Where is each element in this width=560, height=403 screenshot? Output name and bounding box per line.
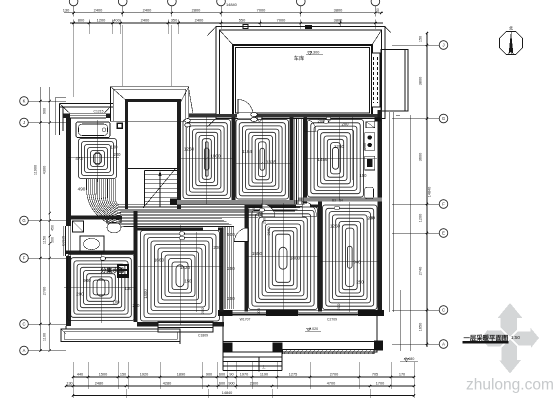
right dimension ticks (426, 32, 428, 34)
svg-text:90: 90 (229, 372, 233, 376)
svg-text:C0905: C0905 (62, 236, 66, 246)
stair landing line (128, 168, 177, 170)
svg-text:2150: 2150 (266, 226, 271, 236)
leader lines room U2 (261, 117, 263, 204)
leader lines lower-left room (100, 252, 102, 323)
svg-text:200: 200 (114, 152, 122, 157)
living room L1 bottom wall (137, 322, 224, 327)
svg-text:170: 170 (399, 372, 405, 376)
svg-text:900: 900 (228, 381, 234, 385)
svg-text:C1809: C1809 (198, 334, 208, 338)
leader lines bathroom (97, 120, 99, 182)
stairwell top wall (125, 99, 181, 102)
svg-text:600: 600 (219, 372, 225, 376)
stairwell left wall (125, 102, 128, 209)
svg-text:130: 130 (66, 381, 72, 385)
svg-text:7000: 7000 (277, 18, 286, 23)
svg-text:250: 250 (263, 218, 267, 224)
top dimension ticks row 2 (72, 22, 74, 24)
garage roof hip diagonals (207, 27, 216, 37)
svg-text:200: 200 (318, 119, 326, 124)
svg-text:G: G (442, 116, 445, 121)
svg-text:800: 800 (78, 18, 85, 23)
garage inner door swing bottom-left (238, 113, 253, 119)
svg-text:2300: 2300 (250, 381, 258, 385)
svg-text:440: 440 (77, 372, 83, 376)
left bay roof hip diagonals (60, 104, 71, 114)
left exterior wall (66, 115, 71, 326)
svg-text:1150: 1150 (43, 236, 47, 244)
svg-text:C: C (442, 308, 445, 313)
svg-text:900: 900 (206, 372, 212, 376)
bathroom bay window wall (63, 114, 110, 119)
svg-text:4280: 4280 (163, 381, 171, 385)
svg-text:1400: 1400 (143, 289, 148, 299)
svg-text:150: 150 (252, 206, 256, 212)
garage eave outer rectangle (216, 27, 385, 119)
svg-text:130: 130 (63, 8, 70, 13)
svg-text:1335: 1335 (266, 160, 277, 165)
svg-text:2400: 2400 (195, 18, 204, 23)
left dimension line inner (39, 87, 41, 351)
pipe fan from bathroom to corridor (87, 179, 235, 227)
svg-text:1890: 1890 (177, 372, 185, 376)
svg-text:上: 上 (262, 364, 266, 369)
left dimension line outer (49, 87, 51, 351)
valve black square near stairs (170, 199, 177, 206)
svg-text:1650: 1650 (419, 323, 423, 331)
wc lower wall (66, 251, 137, 255)
north compass (500, 32, 523, 55)
svg-text:940: 940 (353, 260, 361, 265)
interior wall right of wc (134, 211, 138, 322)
svg-text:1970: 1970 (240, 372, 248, 376)
toilet (107, 222, 121, 233)
coil room U1 (183, 120, 231, 199)
svg-text:450: 450 (51, 225, 55, 231)
corridor top wall gray band (176, 200, 298, 204)
terrace column left (223, 343, 233, 353)
svg-text:1420: 1420 (180, 265, 191, 270)
door swing corridor to U2 (262, 204, 275, 217)
svg-text:2400: 2400 (94, 8, 103, 13)
riser circles room U1 top (185, 119, 191, 123)
svg-text:3800: 3800 (419, 77, 423, 85)
wall L2 left (245, 205, 249, 312)
svg-text:G: G (22, 218, 25, 223)
svg-text:200: 200 (200, 307, 205, 314)
service unit stove (365, 133, 375, 150)
upper rooms wall U3 left (304, 118, 308, 204)
coil room WC lower-left (68, 255, 135, 321)
top dimension line row 2 (70, 22, 383, 24)
right grid bubbles (439, 41, 448, 50)
lower wall black piers (218, 310, 233, 316)
leader lines room L2 (282, 203, 284, 312)
svg-text:150: 150 (419, 36, 423, 42)
riser circles room L3 top (334, 206, 339, 210)
svg-text:J: J (23, 120, 25, 125)
terrace outline (223, 315, 377, 353)
corridor vertical pipe chase (222, 226, 224, 309)
top dimension right end 150 (380, 12, 382, 14)
upper floor top wall band (189, 114, 382, 118)
bottom dimension ticks row 3 (72, 394, 74, 396)
top grid bubbles (69, 0, 78, 6)
left eave corner lines top-left (55, 97, 66, 99)
bathroom door marker (117, 123, 124, 130)
svg-text:500: 500 (227, 232, 235, 237)
stair tower hip diagonals (111, 87, 129, 103)
svg-text:7000: 7000 (257, 8, 266, 13)
upper rooms wall U2 right (290, 118, 294, 204)
bottom dimension line row 3 (73, 395, 414, 397)
stairwell right wall (177, 102, 181, 209)
svg-text:1700: 1700 (376, 381, 384, 385)
svg-text:F: F (23, 256, 26, 261)
svg-text:500: 500 (51, 237, 55, 243)
bay window C1809 (158, 322, 213, 328)
driveway pad right of garage (381, 50, 408, 112)
top dimension ticks row 1 (72, 12, 74, 14)
bottom dimension line row 2 (66, 385, 414, 387)
svg-text:600: 600 (219, 381, 225, 385)
chimney mark left on garage eave (243, 25, 248, 29)
svg-text:W1707: W1707 (240, 318, 251, 322)
svg-text:B4: B4 (339, 199, 343, 203)
right outer boundary line (400, 290, 402, 351)
watermark logo (481, 303, 539, 374)
shower tray (73, 221, 84, 232)
svg-text:B3: B3 (332, 199, 336, 203)
svg-text:11900: 11900 (34, 165, 38, 175)
svg-text:E: E (442, 231, 445, 236)
svg-text:A: A (442, 342, 445, 347)
svg-text:K: K (23, 99, 26, 104)
svg-text:150: 150 (120, 372, 126, 376)
svg-text:1190: 1190 (260, 372, 268, 376)
bottom dimension ticks row 2 (65, 385, 67, 387)
terrace steps (223, 356, 282, 358)
coil room L3 (323, 205, 378, 310)
riser circles room L2 top (259, 208, 264, 212)
wall L2/L3 divider (318, 202, 322, 312)
svg-text:3800: 3800 (334, 8, 343, 13)
riser circles room U3 top (323, 120, 328, 124)
svg-text:200: 200 (76, 292, 84, 297)
svg-text:3600: 3600 (419, 153, 423, 161)
svg-text:1184: 1184 (242, 149, 252, 154)
svg-text:350: 350 (171, 18, 178, 23)
leader lines room U1 (206, 117, 208, 204)
svg-text:4300: 4300 (43, 166, 47, 174)
right dimension line (426, 33, 428, 347)
lower rooms bottom wall (218, 311, 384, 316)
L1 top wall (137, 228, 224, 231)
svg-text:1:50: 1:50 (511, 335, 520, 340)
svg-text:14840: 14840 (222, 391, 233, 395)
chimney mark right on garage eave (305, 25, 312, 29)
svg-text:C1215: C1215 (94, 110, 104, 114)
black pier right wall top (375, 117, 381, 121)
svg-text:1800: 1800 (290, 256, 301, 261)
stair up arrow (159, 174, 161, 207)
svg-text:490: 490 (78, 187, 86, 192)
L2 top wall (245, 205, 320, 208)
eave line between tower and garage (189, 112, 216, 114)
svg-text:1100: 1100 (43, 333, 47, 341)
bottom dimension ticks row 1 (72, 376, 74, 378)
door swing L3 top (302, 202, 317, 217)
svg-text:1250: 1250 (184, 147, 195, 152)
svg-text:1920: 1920 (140, 372, 148, 376)
right grid bubble leaders (392, 44, 439, 46)
bottom dimension witness lines (72, 362, 74, 389)
upper rooms wall U1 right (232, 118, 236, 204)
svg-text:705: 705 (372, 372, 378, 376)
coil room U2 (236, 120, 289, 200)
terrace slab bottom-left (61, 329, 180, 342)
svg-text:200: 200 (336, 303, 341, 310)
stair tower eave outer (111, 87, 189, 122)
stair tower eave inner line (114, 88, 186, 90)
svg-text:车库: 车库 (294, 54, 304, 62)
upper right rooms bottom wall (298, 197, 382, 201)
riser circles room U2 top (251, 112, 257, 116)
leader lines living room L1 (179, 225, 181, 325)
wall between L1 and corridor chase (220, 228, 224, 312)
door swing U3 hall (304, 119, 316, 131)
terrace column middle (273, 343, 283, 353)
svg-text:900: 900 (43, 108, 47, 114)
window W1707 in lower wall (233, 310, 267, 316)
svg-text:A: A (23, 348, 26, 353)
right facade inner line (389, 112, 391, 312)
leader lines room L3 (349, 202, 351, 312)
svg-text:200: 200 (368, 216, 376, 221)
terrace step arrow (258, 357, 260, 372)
svg-text:150: 150 (360, 173, 368, 178)
coil room U3 (308, 120, 364, 198)
bathtub (76, 122, 110, 138)
svg-text:130: 130 (125, 286, 133, 291)
window C0905 outer sill (62, 226, 64, 256)
svg-text:1660: 1660 (154, 258, 165, 263)
svg-text:250: 250 (133, 303, 141, 308)
service unit sink (365, 156, 375, 170)
stair break diagonal (143, 168, 176, 208)
svg-text:3800: 3800 (334, 18, 343, 23)
svg-text:2480: 2480 (95, 381, 103, 385)
svg-text:400: 400 (113, 18, 120, 23)
svg-text:14840: 14840 (226, 2, 238, 7)
svg-text:1500: 1500 (99, 372, 107, 376)
window C2709 in lower wall (299, 310, 358, 316)
window C0905 in left wall (65, 226, 72, 256)
coil bathroom (79, 139, 117, 179)
svg-text:C2709: C2709 (327, 318, 337, 322)
svg-text:900: 900 (83, 278, 91, 283)
svg-text:1250: 1250 (334, 144, 345, 149)
washbasin counter (80, 236, 104, 252)
garage eave inner rectangle (220, 30, 382, 115)
svg-text:200: 200 (342, 122, 350, 127)
right exterior wall upper (378, 110, 383, 314)
svg-text:1200: 1200 (97, 18, 106, 23)
bathroom lower wall (66, 216, 122, 220)
svg-text:250: 250 (227, 266, 235, 271)
svg-text:200: 200 (256, 307, 261, 314)
hallway pipes between U2 and U3 (293, 119, 295, 204)
svg-text:2400: 2400 (143, 8, 152, 13)
garage door opening right (371, 53, 381, 107)
top dimension line row 1 (64, 12, 383, 14)
manifold block (117, 264, 129, 278)
svg-text:14840: 14840 (428, 187, 432, 198)
svg-text:150: 150 (185, 279, 193, 284)
svg-text:1550: 1550 (252, 251, 263, 256)
terrace column right (374, 341, 383, 351)
riser circles lower-left room (100, 257, 105, 261)
left bay window roof (60, 103, 114, 105)
top dimension witness lines (73, 25, 75, 97)
svg-text:150: 150 (376, 8, 380, 14)
svg-text:J: J (442, 43, 444, 48)
svg-text:1200: 1200 (363, 143, 367, 151)
left dimension ticks (39, 100, 41, 102)
svg-text:2400: 2400 (141, 18, 150, 23)
svg-text:一层采暖平面图: 一层采暖平面图 (464, 333, 509, 342)
svg-text:-2.480: -2.480 (404, 357, 415, 361)
svg-text:550: 550 (239, 18, 246, 23)
svg-text:F: F (442, 202, 445, 207)
riser circles living room top (179, 232, 184, 236)
svg-text:250: 250 (227, 296, 235, 301)
risers on garage bottom wall (257, 117, 261, 121)
svg-text:1250: 1250 (330, 224, 341, 229)
svg-text:1200: 1200 (419, 214, 423, 222)
bottom dimension line row 1 (73, 376, 414, 378)
svg-text:100: 100 (113, 300, 121, 305)
left grid bubbles (20, 97, 29, 106)
svg-text:zhulong.com: zhulong.com (466, 377, 554, 394)
terrace hatched edge strip (283, 350, 375, 354)
svg-text:450: 450 (258, 212, 262, 218)
svg-text:200: 200 (213, 245, 221, 250)
garage walls (233, 45, 372, 116)
svg-text:1456: 1456 (317, 157, 328, 162)
svg-text:4700: 4700 (327, 381, 335, 385)
stair treads (145, 170, 178, 172)
svg-text:1275: 1275 (289, 372, 297, 376)
coil living room L1 (141, 231, 220, 322)
svg-text:473: 473 (75, 156, 83, 161)
svg-text:2740: 2740 (419, 267, 423, 275)
svg-text:100: 100 (111, 145, 119, 150)
coil room L2 (249, 207, 318, 310)
svg-text:2700: 2700 (330, 372, 338, 376)
svg-text:1000: 1000 (210, 154, 221, 159)
service unit lower cabinet (365, 187, 374, 198)
door swing corridor to L2 (235, 228, 249, 242)
title underline (463, 341, 509, 343)
service unit top box (366, 122, 375, 128)
svg-text:250: 250 (356, 280, 364, 285)
leader lines room U3 (339, 117, 341, 200)
left grid bubble leaders (28, 100, 66, 102)
svg-text:2700: 2700 (43, 287, 47, 295)
svg-text:2800: 2800 (192, 8, 201, 13)
svg-text:C: C (22, 322, 25, 327)
